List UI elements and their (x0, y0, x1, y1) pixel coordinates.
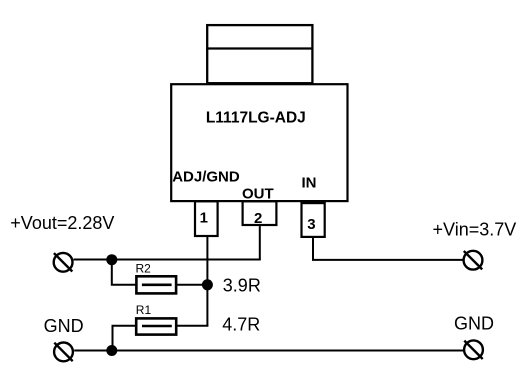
terminal +Vin (464, 251, 483, 270)
wire R1 right lead to pin1 vertical (176, 325, 208, 327)
label +Vin=3.7V (433, 219, 517, 239)
svg-text:ADJ/GND: ADJ/GND (172, 169, 240, 186)
pin label IN (302, 175, 317, 192)
wire +Vout rail horizontal (74, 259, 261, 261)
svg-text:+Vout=2.28V: +Vout=2.28V (10, 213, 114, 233)
pin 1 box (195, 201, 218, 236)
label +Vout=2.28V (10, 213, 114, 233)
svg-text:3.9R: 3.9R (223, 275, 261, 295)
svg-text:GND: GND (44, 316, 84, 336)
junction node C on GND rail (106, 345, 117, 356)
svg-text:3: 3 (307, 216, 315, 233)
pin label OUT (242, 186, 274, 203)
svg-text:R1: R1 (136, 303, 152, 317)
terminal GND right (464, 340, 483, 359)
pin 3 number (307, 216, 315, 233)
terminal GND left (54, 343, 73, 362)
wire pin2 OUT down to +Vout rail (259, 226, 261, 259)
pin label ADJ/GND (172, 169, 240, 186)
wire GND rail horizontal (74, 350, 463, 352)
wire pin1 ADJ vertical (206, 236, 208, 326)
resistor R1 (136, 318, 176, 334)
resistor R2 (136, 276, 176, 293)
wire R2 right lead to node B (176, 284, 207, 286)
wire pin3 IN to +Vin terminal (313, 237, 463, 260)
junction node A on +Vout rail (106, 254, 117, 265)
wire node A down to R2 left (112, 260, 136, 285)
label R2 (136, 262, 152, 276)
svg-text:R2: R2 (136, 262, 152, 276)
label 4.7R (222, 314, 260, 334)
pin 3 box (302, 203, 325, 237)
junction node B (ADJ divider tap) (202, 279, 213, 290)
svg-text:L1117LG-ADJ: L1117LG-ADJ (206, 110, 306, 127)
svg-text:4.7R: 4.7R (222, 314, 260, 334)
svg-text:2: 2 (254, 210, 262, 227)
wire R1 left lead down to GND rail (113, 326, 137, 351)
svg-text:GND: GND (454, 314, 494, 334)
label GND left (44, 316, 84, 336)
svg-text:1: 1 (200, 210, 208, 227)
svg-text:IN: IN (302, 175, 317, 192)
pin 1 number (200, 210, 208, 227)
regulator U1 body (171, 84, 347, 201)
svg-text:+Vin=3.7V: +Vin=3.7V (433, 219, 517, 239)
label R1 (136, 303, 152, 317)
pin 2 number (254, 210, 262, 227)
label GND right (454, 314, 494, 334)
regulator U1 tab (206, 25, 313, 83)
label L1117LG-ADJ (206, 110, 306, 127)
svg-text:OUT: OUT (242, 186, 274, 203)
terminal +Vout (54, 253, 73, 272)
pin 2 box (243, 201, 277, 225)
label 3.9R (223, 275, 261, 295)
